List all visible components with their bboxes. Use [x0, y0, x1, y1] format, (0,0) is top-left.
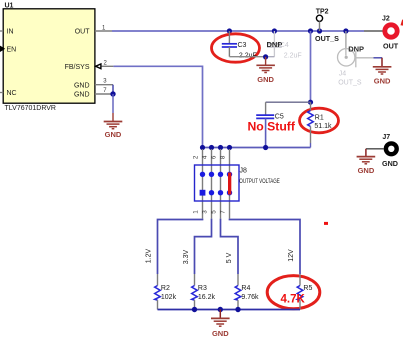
wire FB top link — [266, 101, 311, 103]
svg-text:2: 2 — [193, 155, 200, 159]
svg-text:R2: R2 — [161, 285, 170, 292]
node R3 bottom — [192, 307, 197, 312]
ground U1 — [104, 113, 123, 139]
svg-text:DNP: DNP — [348, 44, 364, 53]
svg-text:9.76k: 9.76k — [241, 294, 259, 301]
svg-text:R5: R5 — [303, 285, 312, 292]
node J8 pin4 — [209, 145, 214, 150]
svg-text:J8: J8 — [240, 167, 248, 174]
svg-text:R4: R4 — [241, 285, 250, 292]
svg-text:GND: GND — [382, 159, 398, 168]
svg-text:7: 7 — [103, 88, 107, 94]
svg-text:C4: C4 — [280, 42, 289, 49]
svg-text:5: 5 — [211, 210, 218, 214]
svg-text:4.7K: 4.7K — [281, 293, 306, 305]
node C4 top — [272, 28, 277, 33]
wire gnd node to C4 bottom — [266, 56, 275, 58]
svg-text:6: 6 — [211, 155, 218, 159]
wire R1 bottom to bus — [310, 143, 312, 148]
wire FB/SYS — [113, 66, 202, 147]
svg-text:GND: GND — [74, 92, 90, 99]
svg-text:FB/SYS: FB/SYS — [65, 64, 90, 71]
resistor R2 — [155, 274, 177, 310]
svg-text:NC: NC — [7, 90, 17, 97]
node J8 pin2 — [200, 145, 205, 150]
ground bottom — [211, 310, 230, 338]
svg-text:102k: 102k — [161, 294, 177, 301]
wire 12V branch — [230, 219, 301, 274]
wire J7 to gnd — [366, 148, 384, 150]
node J8 pin8 — [227, 145, 232, 150]
svg-text:R3: R3 — [198, 285, 207, 292]
wire J4 shield to gnd — [374, 57, 383, 59]
node TP2 — [317, 28, 322, 33]
svg-text:OUT: OUT — [383, 42, 399, 51]
pin IN stub — [0, 30, 3, 32]
node R1/C5 top junction — [308, 100, 313, 105]
svg-text:GND: GND — [74, 82, 90, 89]
node C3 top — [227, 28, 232, 33]
svg-text:GND: GND — [358, 166, 375, 175]
wire pin3 to pin7 junction — [112, 85, 114, 94]
svg-text:GND: GND — [374, 76, 391, 85]
svg-text:OUTPUT VOLTAGE: OUTPUT VOLTAGE — [239, 178, 279, 185]
node J8 pin6 — [218, 145, 223, 150]
svg-text:2.2uF: 2.2uF — [284, 53, 302, 60]
svg-text:OUT_S: OUT_S — [338, 79, 362, 86]
node C3/C4 gnd junction — [263, 54, 268, 59]
connector J7 — [382, 134, 398, 168]
pin 3 GND lead — [95, 79, 113, 85]
svg-text:5 V: 5 V — [226, 252, 233, 263]
capacitor C4 (DNP, greyed) — [267, 31, 302, 60]
resistor R1 — [308, 102, 332, 143]
svg-text:TP2: TP2 — [316, 9, 329, 16]
node C5 bottom — [263, 145, 268, 150]
wire U1 gnd down — [112, 94, 114, 113]
testpoint TP2 — [315, 9, 339, 44]
connector J2 — [382, 16, 399, 51]
wire 3.3V branch — [195, 219, 212, 274]
annotation red ellipse around R1 — [300, 108, 339, 133]
svg-text:GND: GND — [212, 329, 229, 338]
capacitor C3 — [222, 31, 257, 60]
node J4 tap — [343, 28, 348, 33]
svg-text:1.2V: 1.2V — [145, 248, 152, 263]
op-amp U1 — [3, 3, 95, 112]
node U1 GND junction — [110, 91, 115, 96]
svg-text:GND: GND — [257, 75, 274, 84]
resistor R5 — [297, 274, 312, 310]
svg-text:R1: R1 — [315, 115, 324, 122]
node R4 bottom — [235, 307, 240, 312]
connector J8 — [195, 149, 280, 219]
pin 2 FB/SYS triangle and lead — [96, 61, 114, 69]
ground J4 — [373, 58, 392, 86]
pin 7 GND lead — [95, 88, 113, 94]
annotation red mark at right edge — [401, 20, 403, 26]
svg-text:EN: EN — [7, 46, 17, 53]
svg-text:J2: J2 — [382, 16, 390, 23]
wire R1 branch vertical — [310, 31, 312, 102]
wire C5 bottom — [265, 118, 267, 147]
wire bottom gnd bus — [158, 309, 301, 311]
wire C3 bottom to gnd node — [229, 56, 265, 58]
svg-text:7: 7 — [220, 210, 227, 214]
svg-text:1: 1 — [193, 210, 200, 214]
svg-text:J7: J7 — [382, 134, 390, 141]
jumper shunt on J8 pins 7-8 — [228, 173, 231, 195]
svg-text:16.2k: 16.2k — [198, 294, 216, 301]
wire VOUT top bus — [112, 30, 364, 32]
svg-text:J4: J4 — [339, 71, 347, 78]
resistor R4 — [235, 274, 259, 310]
svg-text:GND: GND — [105, 130, 122, 139]
pin 1 OUT lead — [95, 26, 112, 32]
node gnd tap — [218, 307, 223, 312]
svg-text:OUT_S: OUT_S — [315, 34, 339, 43]
resistor R3 — [192, 274, 216, 310]
annotation red ellipse around R5 — [267, 276, 320, 309]
pin NC stub — [0, 92, 3, 94]
svg-text:51.1k: 51.1k — [314, 123, 332, 130]
connector J4 (DNP, greyed) — [338, 31, 374, 86]
ground J7 — [357, 149, 376, 175]
svg-text:8: 8 — [220, 155, 227, 159]
svg-text:C3: C3 — [238, 42, 247, 49]
pin EN input triangle — [0, 46, 5, 52]
svg-text:3: 3 — [103, 79, 107, 85]
svg-text:3: 3 — [202, 210, 209, 214]
ground C3/C4 — [256, 57, 275, 84]
wire 1.2V branch — [158, 219, 203, 274]
svg-text:12V: 12V — [288, 249, 295, 262]
svg-text:4: 4 — [202, 155, 209, 159]
svg-text:OUT: OUT — [75, 29, 91, 36]
node R1 top — [308, 28, 313, 33]
annotation red ellipse around C3 — [212, 34, 260, 62]
capacitor C5 — [256, 102, 284, 120]
annotation red dash — [324, 222, 328, 225]
svg-text:U1: U1 — [5, 3, 14, 10]
svg-text:No Stuff: No Stuff — [248, 120, 296, 134]
wire FB mid bus — [203, 147, 311, 149]
svg-text:TLV76701DRVR: TLV76701DRVR — [5, 105, 57, 112]
wire 5V branch — [221, 219, 239, 274]
svg-text:3.3V: 3.3V — [183, 249, 190, 264]
svg-text:IN: IN — [7, 29, 14, 36]
wire grey into J2 — [364, 30, 383, 32]
